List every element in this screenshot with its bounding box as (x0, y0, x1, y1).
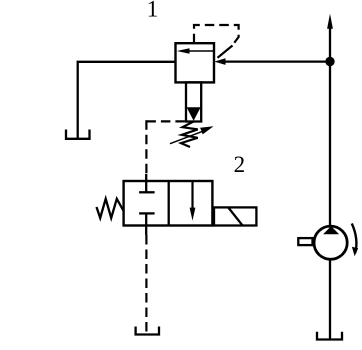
solenoid box of valve 2 (214, 207, 256, 225)
solenoid diagonal (228, 207, 242, 225)
valve 2 flow arrow (open position) (191, 181, 193, 211)
tank T3 bottom right (317, 332, 342, 340)
relief valve U1 body (176, 43, 215, 82)
arrow inside valve U1 (184, 50, 213, 52)
poppet triangle in stem (187, 107, 201, 121)
pilot dashed line from valve 1 spring to valve 2 (146, 120, 186, 122)
pump P1 circle (314, 226, 347, 259)
pilot solid diagonal into valve right port (218, 46, 233, 58)
pump shaft (298, 238, 312, 245)
spring of valve 1 (181, 122, 198, 148)
wire right from valve 1 to pump line (222, 60, 330, 62)
pump rotation arc (352, 224, 357, 254)
svg-text:2: 2 (234, 152, 246, 177)
adjustment arrow through spring (170, 131, 203, 144)
pump suction line to tank (329, 259, 331, 339)
valve 1 stem (186, 82, 201, 121)
pilot dashed loop over valve 1 (194, 25, 239, 45)
tank T2 below valve 2 (136, 327, 159, 335)
valve 2 bottom port T (closed) (145, 213, 147, 235)
junction node dot (325, 57, 334, 66)
spring of valve 2 (97, 199, 124, 218)
wire left from valve 1 to left tank (78, 62, 176, 139)
arrowhead on wire at valve right port (214, 58, 225, 65)
tank T1 left (66, 130, 90, 139)
valve 2 top port T (closed) (145, 174, 147, 192)
pump supply vertical line with arrow up (329, 27, 331, 226)
svg-text:1: 1 (147, 0, 159, 21)
pump flow triangle (323, 226, 339, 234)
dashed drain line below valve 2 (145, 235, 147, 334)
valve 2 position divider (168, 181, 170, 226)
valve 2 body (124, 181, 213, 226)
